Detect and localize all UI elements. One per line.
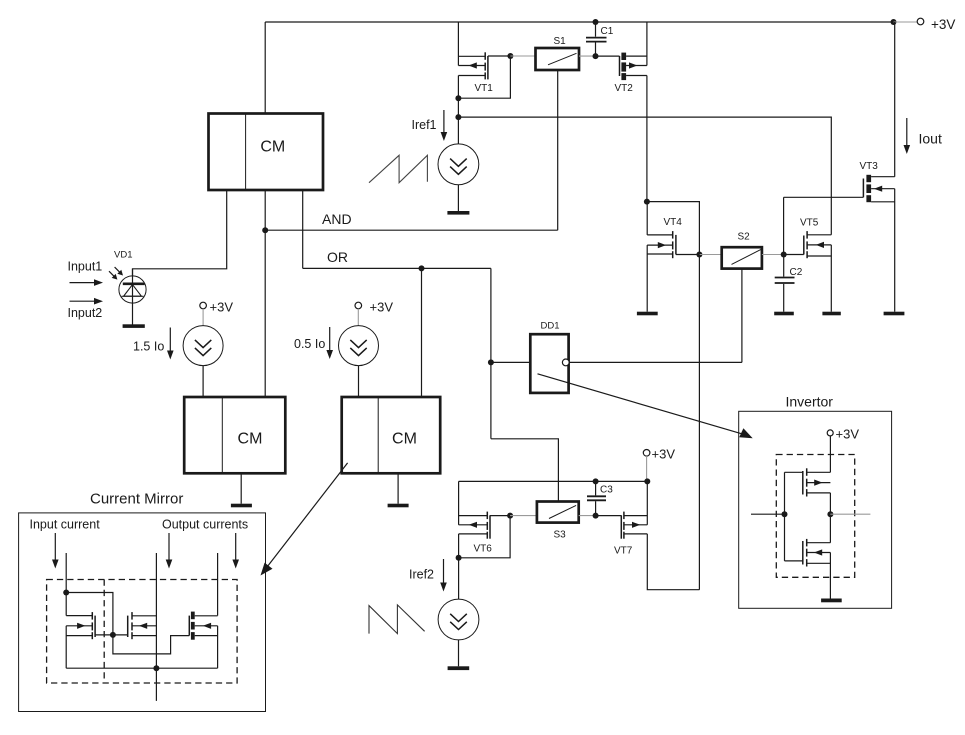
- wire invertor output stub: [830, 513, 870, 515]
- sawtooth waveform 2: [369, 605, 425, 634]
- wire OR line: [303, 249, 491, 268]
- wire drain to S1-left node: [458, 56, 510, 98]
- wire S1 control to AND: [557, 70, 559, 230]
- svg-text:VT7: VT7: [614, 546, 633, 557]
- capacitor C1: [586, 22, 614, 56]
- svg-text:Invertor: Invertor: [786, 394, 834, 410]
- svg-text:VT2: VT2: [615, 83, 634, 94]
- label 0.5 Io with arrow: [294, 327, 333, 359]
- node rail C3: [593, 478, 599, 484]
- wire VT5 source to ground: [830, 245, 832, 312]
- node VT4 drain top: [644, 199, 650, 205]
- ground CM3: [388, 504, 409, 508]
- svg-text:+3V: +3V: [931, 17, 955, 32]
- wire input node to gates: [66, 593, 189, 654]
- terminal +3V top right: [917, 17, 955, 32]
- wire output pin 2: [217, 553, 219, 616]
- wire S3 left stub: [510, 515, 537, 517]
- wire OR to DD1 input: [490, 268, 492, 438]
- wire VT1 drain down: [457, 76, 459, 145]
- ground C2: [774, 312, 794, 316]
- wire invertor input bus: [784, 472, 786, 561]
- transistor M2: [128, 612, 157, 639]
- node VT1 drain: [455, 95, 461, 101]
- switch S2: [722, 232, 762, 269]
- node VT6 drain: [456, 555, 462, 561]
- node S2 right / C2 top: [781, 252, 787, 258]
- svg-text:CM: CM: [392, 431, 417, 448]
- svg-text:Output currents: Output currents: [162, 518, 248, 532]
- block CM1: [209, 114, 324, 191]
- transistor invertor NMOS: [785, 539, 831, 567]
- switch S1: [536, 36, 580, 70]
- svg-text:Input2: Input2: [68, 306, 103, 320]
- node rail right: [644, 478, 650, 484]
- wire +3V local rail: [459, 480, 648, 482]
- transistor invertor PMOS: [785, 468, 831, 496]
- wire CM1 bottom-left to VD1: [133, 190, 227, 276]
- wire S2 control down to DD1 output: [741, 269, 743, 363]
- svg-text:0.5 Io: 0.5 Io: [294, 337, 325, 351]
- wire S2 right stub: [762, 254, 784, 256]
- wire invertor input stub: [751, 513, 785, 515]
- svg-text:Iref1: Iref1: [412, 118, 437, 132]
- wire source bus: [66, 667, 217, 669]
- svg-text:VT1: VT1: [475, 83, 494, 94]
- wire VT6 drain down: [458, 534, 460, 599]
- svg-text:C3: C3: [600, 485, 613, 496]
- svg-text:S1: S1: [554, 36, 567, 47]
- svg-text:S2: S2: [738, 232, 751, 243]
- wire M1 source down to bus: [65, 626, 67, 668]
- transistor VT1 (PMOS): [458, 52, 510, 94]
- ground VT4: [637, 312, 658, 316]
- svg-text:AND: AND: [322, 211, 352, 227]
- terminal +3V above C3: [643, 447, 675, 482]
- transistor M3 (thick channel): [189, 612, 217, 640]
- transistor VT6: [459, 512, 511, 555]
- ground VT5: [822, 312, 840, 316]
- svg-text:+3V: +3V: [210, 300, 234, 315]
- wire DD1 input stub: [491, 361, 530, 363]
- light arrow 2 into VD1: [115, 267, 123, 275]
- ground Iref1: [447, 211, 469, 215]
- wire gate bus M1-M2: [95, 634, 128, 636]
- wire VT4 drain up: [646, 202, 648, 235]
- wire VT3 source to ground: [894, 189, 896, 312]
- transistor M1: [66, 612, 95, 639]
- node top rail right: [891, 19, 897, 25]
- ground CM2: [231, 504, 252, 508]
- svg-text:1.5 Io: 1.5 Io: [133, 340, 164, 354]
- svg-text:+3V: +3V: [836, 427, 860, 442]
- label Output currents: [162, 518, 248, 532]
- wire output pin 1: [155, 553, 157, 701]
- node C1 top: [593, 19, 599, 25]
- wire +3V terminal stub top right: [894, 21, 918, 23]
- dashed box current mirror: [47, 580, 238, 684]
- annotation arrow output current 2: [232, 533, 239, 569]
- sawtooth waveform 1: [369, 155, 427, 182]
- node gate bus: [110, 632, 116, 638]
- ground VD1: [123, 324, 145, 328]
- transistor VT7: [596, 512, 648, 557]
- capacitor C3: [587, 481, 613, 515]
- current source 1.5 Io with +3V terminal: [183, 300, 233, 398]
- wire M3 source down to bus: [217, 626, 219, 668]
- svg-text:VT6: VT6: [474, 544, 493, 555]
- label Iref1 with arrow: [412, 110, 448, 141]
- wire CM1 top: [264, 22, 266, 114]
- annotation arrow CM3 to current mirror: [261, 463, 348, 576]
- svg-text:Iout: Iout: [919, 131, 942, 147]
- wire invertor pmos drain to output: [829, 493, 831, 543]
- svg-text:+3V: +3V: [652, 447, 676, 462]
- transistor VT5: [784, 218, 832, 259]
- svg-text:Iref2: Iref2: [409, 568, 434, 582]
- logic block DD1: [530, 321, 568, 393]
- wire VT2 drain down to VT4 node: [646, 76, 648, 202]
- annotation arrow output current 1: [166, 533, 173, 569]
- node C3 bottom: [593, 513, 599, 519]
- svg-text:VT4: VT4: [664, 217, 683, 228]
- wire S1 left stub: [510, 55, 535, 57]
- wire VT6 source from rail: [458, 481, 460, 524]
- transistor VT4: [647, 217, 699, 258]
- light arrow 1 into VD1: [109, 271, 117, 279]
- wire VT4 drain to gate node: [647, 202, 700, 255]
- wire VT3 drain to rail: [894, 22, 896, 177]
- wire CM1 bottom-right to OR: [302, 190, 304, 268]
- node input mirror: [63, 590, 69, 596]
- wire gate tie S3-left: [459, 516, 511, 558]
- svg-text:VT5: VT5: [800, 218, 819, 229]
- wire DD1 output to S2 control: [569, 361, 742, 363]
- wire VT1 source to rail: [457, 22, 459, 66]
- wire DD1 node to S3 control: [491, 439, 559, 502]
- switch S3: [537, 502, 579, 541]
- svg-text:S3: S3: [554, 530, 567, 541]
- svg-text:Input1: Input1: [68, 260, 103, 274]
- node OR junction: [419, 265, 425, 271]
- annotation arrow DD1 to invertor: [538, 374, 753, 439]
- wire invertor vdd: [829, 436, 831, 472]
- label Input current: [30, 518, 101, 532]
- annotation arrow input current: [52, 533, 59, 569]
- svg-text:VD1: VD1: [114, 250, 132, 261]
- wire OR node down to CM3: [421, 268, 423, 397]
- dashed divider current mirror: [103, 580, 105, 684]
- current source 0.5 Io with +3V terminal: [339, 300, 394, 398]
- current source Iref2: [438, 599, 479, 666]
- svg-text:OR: OR: [327, 249, 348, 265]
- svg-text:C1: C1: [601, 26, 614, 37]
- wire VT7 source from rail: [646, 481, 648, 524]
- current source Iref1: [438, 144, 479, 211]
- svg-text:VT3: VT3: [860, 161, 879, 172]
- ground VT3: [884, 312, 905, 316]
- label 1.5 Io with arrow: [133, 328, 174, 360]
- transistor VT2 (PMOS thick): [596, 53, 647, 94]
- ground Iref2: [448, 666, 470, 670]
- node S3 left: [507, 513, 513, 519]
- box Current Mirror: [19, 491, 266, 712]
- wire CM3 to ground: [397, 473, 399, 503]
- wire AND line: [265, 211, 558, 230]
- bubble DD1 output: [562, 359, 569, 366]
- svg-text:C2: C2: [790, 267, 803, 278]
- box Invertor: [739, 394, 892, 609]
- wire VT4 source to ground: [646, 245, 648, 312]
- svg-text:Current Mirror: Current Mirror: [90, 491, 183, 508]
- wire VT2 source to rail: [646, 22, 648, 66]
- wire S3 right stub: [579, 515, 596, 517]
- svg-text:CM: CM: [260, 139, 285, 156]
- wire invertor nmos source to ground: [829, 553, 831, 599]
- node invertor input: [782, 511, 788, 517]
- transistor VT3 (thick channel): [784, 161, 895, 255]
- node DD1 input: [488, 359, 494, 365]
- svg-text:+3V: +3V: [370, 300, 394, 315]
- wire CM1 bottom-middle down to CM2: [264, 190, 266, 397]
- node AND junction: [262, 227, 268, 233]
- node bias line left: [455, 114, 461, 120]
- node S2 left / VT4 gate: [696, 252, 702, 258]
- label Iref2 with arrow: [409, 559, 447, 592]
- wire S2 left stub: [699, 254, 721, 256]
- wire S1 right stub: [579, 55, 596, 57]
- svg-text:Input current: Input current: [30, 518, 101, 532]
- label Input2 with arrow: [68, 298, 104, 320]
- dashed box invertor: [776, 455, 854, 578]
- wire CM2 to ground: [240, 473, 242, 503]
- block CM2: [184, 397, 285, 473]
- node S1 left: [507, 53, 513, 59]
- node source bus: [153, 665, 159, 671]
- wire M1 drain from input node: [65, 593, 67, 616]
- label Iout with arrow: [904, 118, 942, 154]
- svg-text:DD1: DD1: [541, 321, 560, 332]
- wire input current pin: [65, 553, 67, 593]
- terminal +3V invertor: [827, 427, 859, 442]
- capacitor C2: [775, 255, 803, 312]
- label Input1 with arrow: [68, 260, 104, 286]
- wire bias line to VT5: [458, 117, 831, 235]
- photodiode VD1: [114, 250, 146, 325]
- block CM3: [342, 397, 441, 473]
- ground invertor: [821, 599, 842, 603]
- svg-text:CM: CM: [238, 431, 263, 448]
- node C1 bottom / VT2 gate: [593, 53, 599, 59]
- wire top +3V rail: [265, 21, 893, 23]
- wire VT7 drain to x699 riser: [647, 534, 699, 590]
- node invertor output: [827, 511, 833, 517]
- wire VT4 gate node down to VT7 drain: [698, 255, 700, 590]
